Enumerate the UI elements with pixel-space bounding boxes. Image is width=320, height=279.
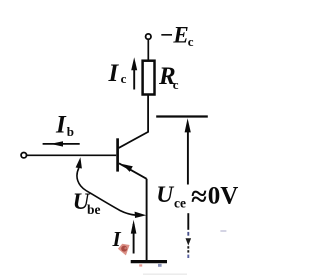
- current arrow Ib: [43, 141, 80, 146]
- ground: [131, 262, 167, 267]
- faint smudge at bottom: [143, 273, 187, 275]
- svg-text:U: U: [156, 182, 174, 208]
- wire: emitter to ground: [146, 179, 148, 261]
- dimension line Uce: up arrow: [185, 118, 191, 132]
- svg-text:ce: ce: [174, 196, 186, 211]
- red pointer cursor: [118, 244, 130, 256]
- label Ib: [55, 111, 74, 139]
- svg-text:c: c: [121, 71, 127, 86]
- label Rc: [158, 63, 179, 92]
- svg-text:c: c: [188, 34, 194, 49]
- wire: base terminal to transistor base: [27, 154, 116, 156]
- wire: top terminal to resistor Rc: [147, 39, 149, 60]
- svg-text:−E: −E: [160, 23, 189, 48]
- svg-text:I: I: [108, 60, 120, 87]
- current arrow Ic: [131, 57, 137, 89]
- label Ube: [73, 189, 101, 217]
- svg-text:c: c: [173, 77, 179, 92]
- svg-text:≈: ≈: [191, 181, 207, 213]
- svg-text:0V: 0V: [208, 183, 239, 210]
- terminal (top, -Ec supply): [146, 34, 151, 39]
- faint dash artifact right of Uce label: [220, 230, 226, 232]
- label Uce ~ 0V: [156, 181, 238, 213]
- svg-text:I: I: [55, 111, 67, 138]
- dimension line Uce: vertical line: [187, 127, 189, 185]
- dimension line Uce: top bar: [156, 115, 208, 117]
- wire: resistor Rc to transistor collector: [119, 95, 148, 148]
- transistor Q1 emitter lead with arrow: [119, 163, 147, 179]
- voltage arc Ube (double arrow): [76, 157, 147, 218]
- svg-text:be: be: [87, 202, 101, 217]
- transistor Q1 (PNP) base bar: [116, 138, 119, 171]
- current arrow Ie: [131, 220, 137, 254]
- svg-text:b: b: [67, 124, 74, 139]
- dimension line Uce: dashed lower segment with down arrow: [186, 213, 192, 258]
- resistor Rc: [143, 61, 155, 95]
- label -Ec: [160, 23, 194, 49]
- terminal (left, base input): [21, 153, 26, 158]
- label Ic: [108, 60, 127, 87]
